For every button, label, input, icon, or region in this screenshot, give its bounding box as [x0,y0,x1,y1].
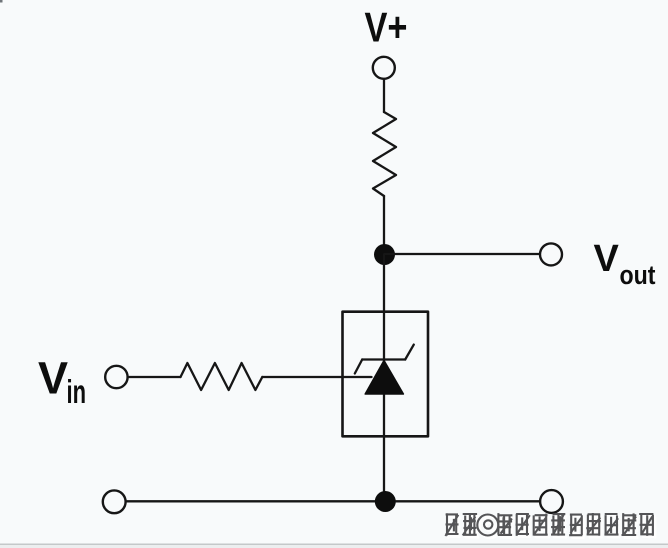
terminal Vin [105,366,127,388]
shunt regulator U1 box [343,312,429,437]
svg-text:in: in [67,373,87,410]
node ground junction [375,491,396,512]
watermark [445,513,656,538]
svg-text:out: out [620,260,656,290]
terminal V+ [373,57,395,79]
bottom edge artifact line [0,544,668,546]
U1 cathode tick right [405,345,414,360]
shunt regulator U1 zener triangle [365,361,403,395]
resistor R1 [373,112,396,196]
wire node to Vout terminal [385,253,540,255]
node Vout junction [374,244,395,265]
corner speck artifact [0,0,3,3]
svg-text:V: V [594,238,620,280]
wire node through U1 to bottom rail [383,255,385,501]
wire bottom rail [126,500,540,502]
wire V+ terminal to R1 [383,79,385,112]
terminal bottom-right [540,490,563,513]
terminal Vout [540,243,562,265]
wire Vin terminal to R2 [128,376,181,378]
resistor R2 [181,363,263,390]
wire R2 to U1 reference [262,376,371,378]
U1 cathode tick left [355,360,362,374]
terminal bottom-left [103,490,126,513]
svg-text:V: V [38,353,68,404]
shunt regulator U1 cathode bar [362,358,405,360]
wire R1 to node [383,196,385,254]
svg-text:V+: V+ [365,4,408,51]
